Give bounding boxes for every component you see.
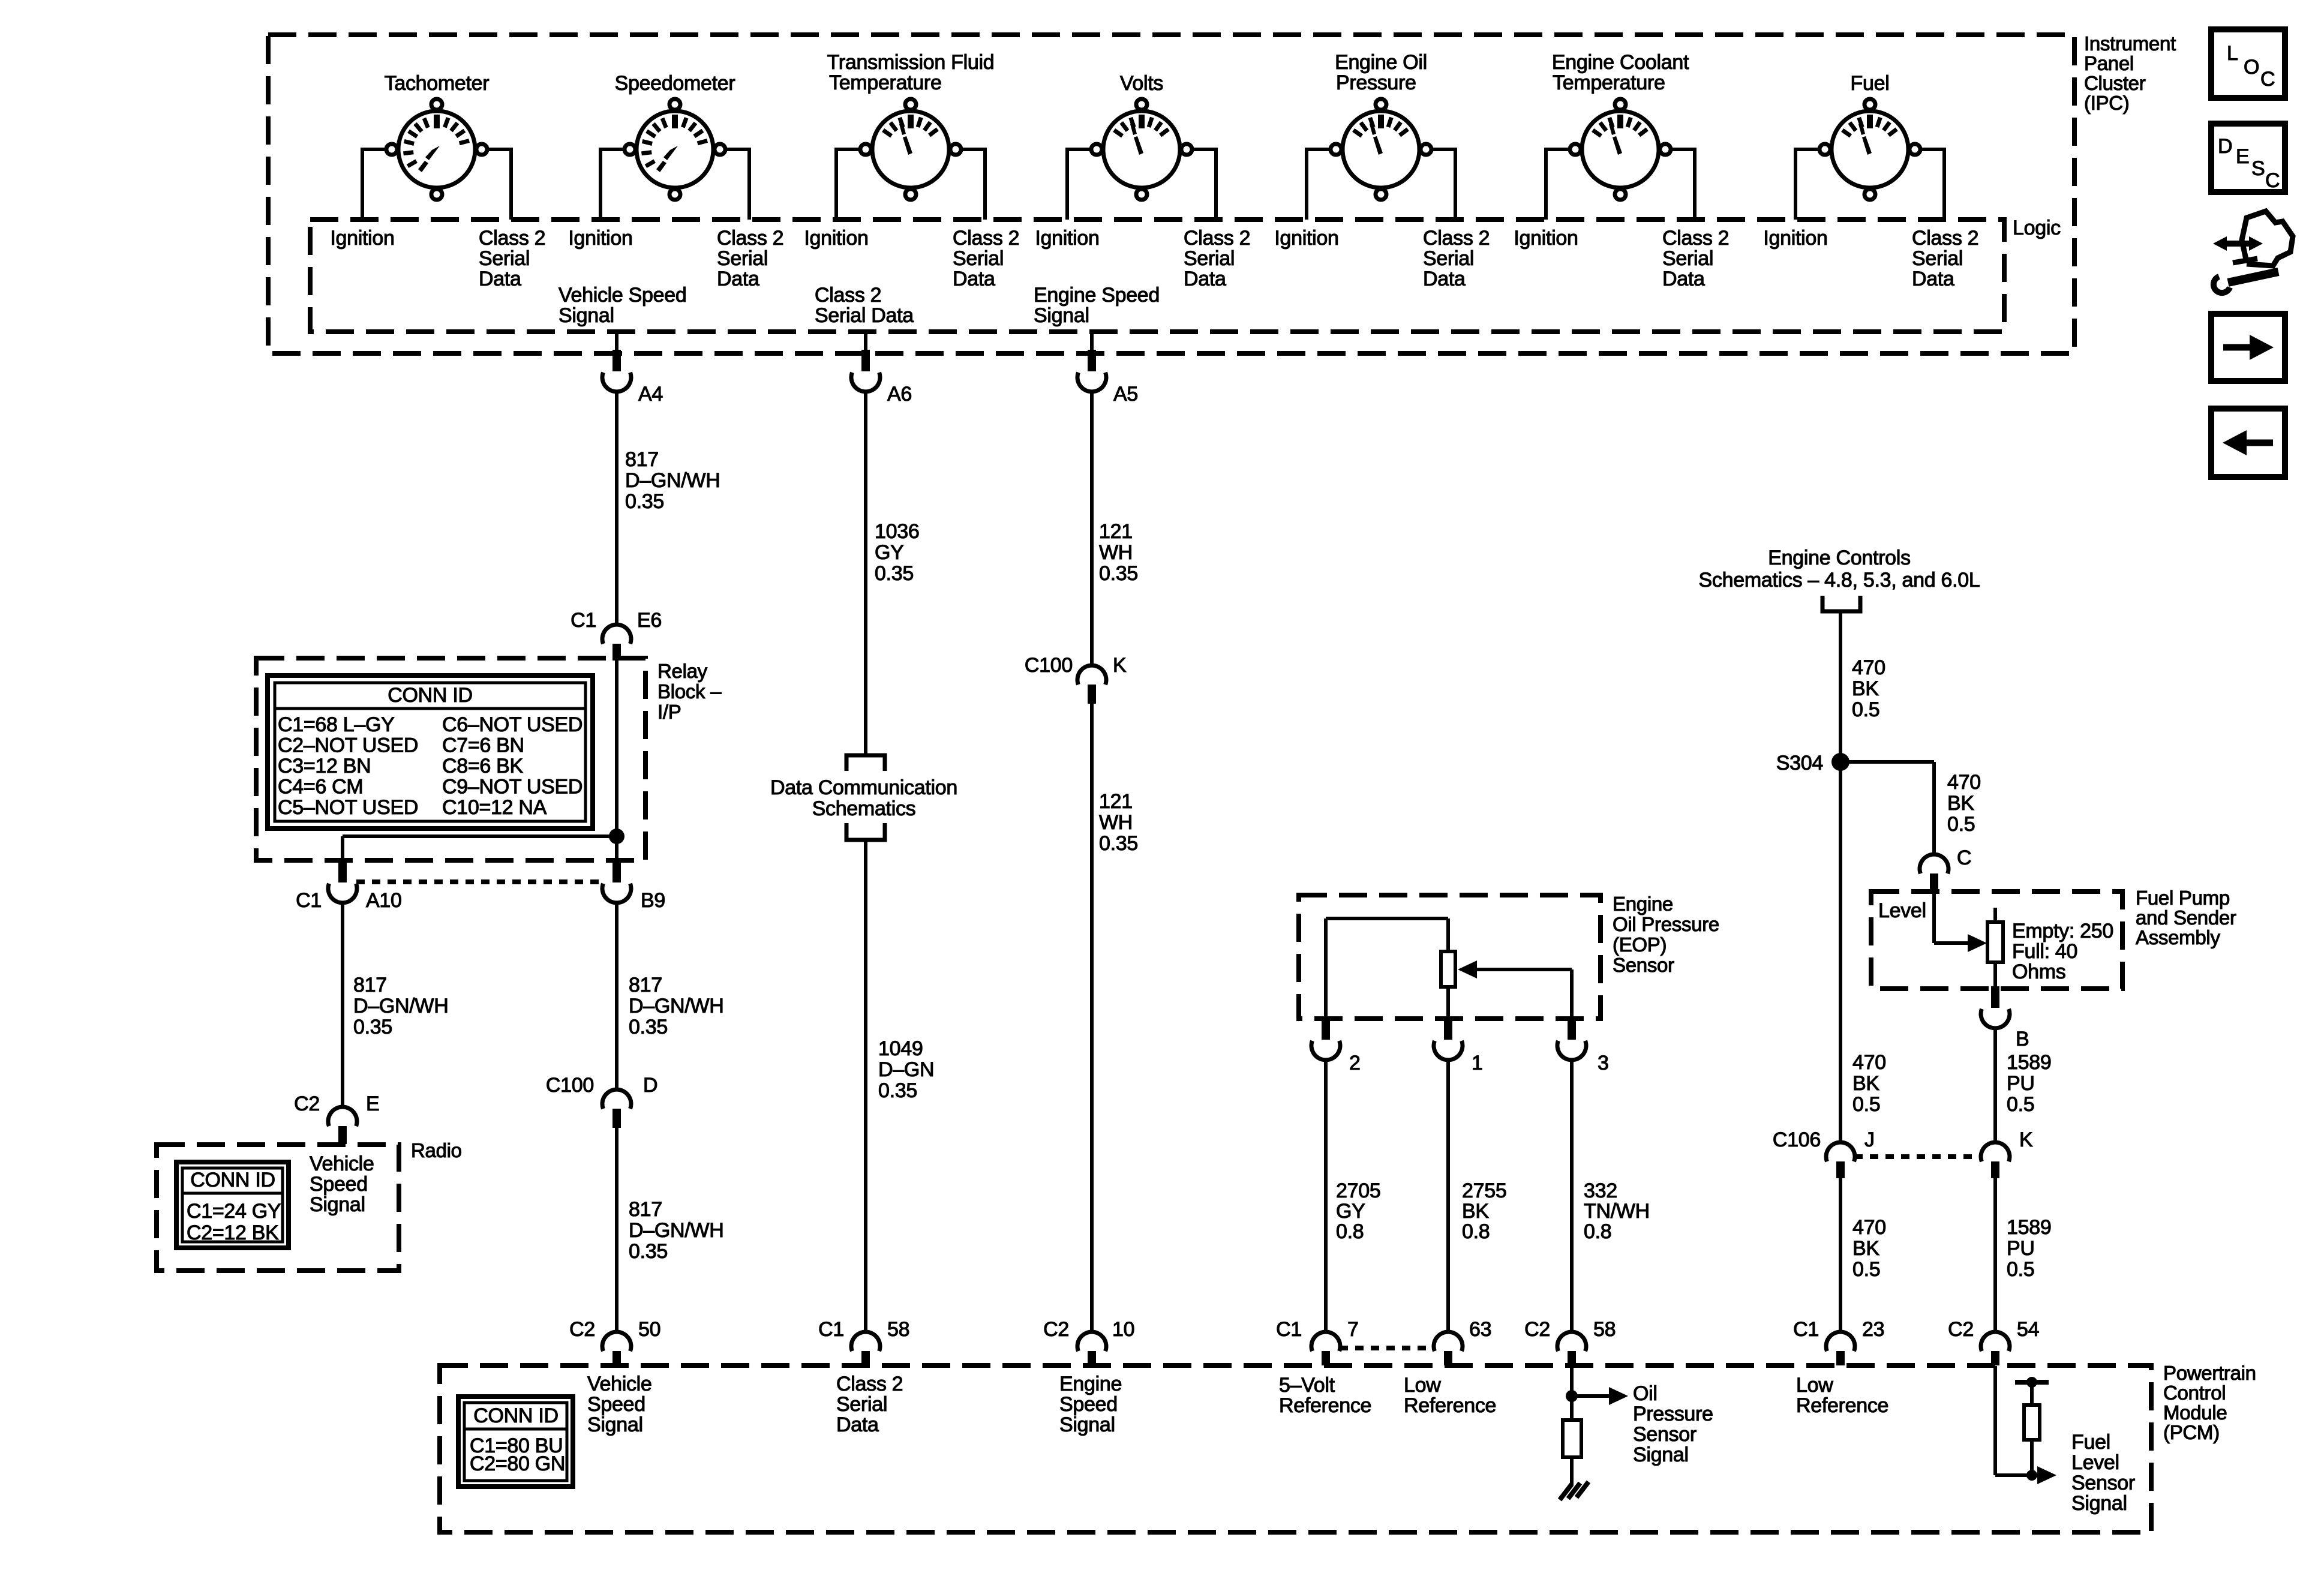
svg-text:CONN ID: CONN ID [388, 684, 472, 707]
svg-text:5–Volt: 5–Volt [1279, 1374, 1335, 1397]
svg-text:Vehicle Speed: Vehicle Speed [559, 284, 687, 307]
svg-text:Speed: Speed [587, 1393, 645, 1416]
svg-text:0.5: 0.5 [1852, 1258, 1880, 1281]
svg-text:A5: A5 [1113, 383, 1138, 406]
svg-text:Data: Data [1912, 268, 1954, 290]
svg-text:0.35: 0.35 [1099, 562, 1138, 585]
svg-text:Level: Level [2071, 1451, 2119, 1474]
svg-text:817: 817 [353, 974, 387, 996]
svg-text:817: 817 [629, 974, 662, 996]
svg-text:C1=68 L–GY: C1=68 L–GY [278, 713, 395, 736]
svg-text:Fuel: Fuel [2071, 1431, 2110, 1454]
svg-text:Cluster: Cluster [2084, 72, 2146, 94]
svg-text:58: 58 [1593, 1318, 1616, 1341]
svg-text:C2–NOT USED: C2–NOT USED [278, 734, 418, 757]
svg-text:BK: BK [1462, 1200, 1489, 1223]
svg-text:E6: E6 [637, 609, 662, 632]
svg-text:0.35: 0.35 [875, 562, 914, 585]
svg-text:Signal: Signal [310, 1193, 365, 1216]
svg-text:Engine: Engine [1613, 893, 1673, 915]
svg-text:Ignition: Ignition [1763, 227, 1827, 250]
svg-text:0.8: 0.8 [1584, 1220, 1611, 1243]
svg-text:TN/WH: TN/WH [1584, 1200, 1650, 1223]
svg-text:C1: C1 [571, 609, 596, 632]
svg-text:Engine: Engine [1059, 1373, 1122, 1395]
svg-text:Serial: Serial [1184, 247, 1235, 270]
svg-text:Reference: Reference [1404, 1394, 1496, 1417]
svg-text:2: 2 [1349, 1052, 1361, 1074]
svg-text:470: 470 [1852, 1051, 1886, 1074]
svg-text:Schematics: Schematics [812, 797, 916, 820]
svg-text:(IPC): (IPC) [2084, 92, 2130, 114]
svg-text:121: 121 [1099, 520, 1133, 543]
svg-text:10: 10 [1112, 1318, 1134, 1341]
svg-text:Engine Oil: Engine Oil [1335, 51, 1427, 74]
svg-text:CONN ID: CONN ID [473, 1404, 558, 1427]
svg-text:Serial: Serial [1662, 247, 1713, 270]
svg-text:A6: A6 [887, 383, 912, 406]
svg-text:0.35: 0.35 [629, 1016, 668, 1038]
svg-text:C1=24 GY: C1=24 GY [187, 1200, 281, 1223]
svg-text:Ignition: Ignition [1514, 227, 1578, 250]
svg-text:54: 54 [2017, 1318, 2039, 1341]
svg-text:Class 2: Class 2 [717, 227, 783, 250]
svg-text:D–GN: D–GN [878, 1058, 934, 1081]
svg-text:Ohms: Ohms [2012, 960, 2065, 983]
svg-text:C7=6 BN: C7=6 BN [442, 734, 524, 757]
svg-text:A10: A10 [366, 889, 402, 912]
svg-text:C8=6 BK: C8=6 BK [442, 755, 524, 778]
svg-text:Signal: Signal [559, 304, 614, 327]
svg-text:K: K [2019, 1128, 2033, 1151]
svg-text:(EOP): (EOP) [1613, 933, 1667, 956]
svg-text:BK: BK [1852, 1072, 1879, 1095]
svg-text:Ignition: Ignition [330, 227, 394, 250]
svg-text:Sensor: Sensor [1633, 1423, 1697, 1446]
svg-text:470: 470 [1947, 771, 1981, 794]
svg-text:Logic: Logic [2013, 217, 2061, 239]
svg-text:C: C [2260, 68, 2275, 91]
svg-text:0.5: 0.5 [1947, 813, 1975, 836]
svg-text:1589: 1589 [2007, 1051, 2051, 1074]
svg-text:Speed: Speed [310, 1173, 368, 1196]
svg-text:D–GN/WH: D–GN/WH [353, 995, 448, 1017]
svg-text:C2: C2 [1043, 1318, 1069, 1341]
svg-text:CONN ID: CONN ID [190, 1169, 275, 1191]
svg-text:Class 2: Class 2 [1184, 227, 1250, 250]
svg-text:Vehicle: Vehicle [310, 1152, 374, 1175]
svg-text:1049: 1049 [878, 1037, 923, 1060]
svg-text:WH: WH [1099, 541, 1133, 564]
svg-text:GY: GY [1336, 1200, 1365, 1223]
svg-text:Signal: Signal [1633, 1443, 1689, 1466]
svg-text:BK: BK [1947, 792, 1974, 815]
svg-text:Vehicle: Vehicle [587, 1373, 652, 1395]
svg-text:Speedometer: Speedometer [615, 72, 735, 95]
svg-text:C2: C2 [294, 1092, 320, 1115]
svg-text:0.35: 0.35 [1099, 832, 1138, 855]
svg-text:GY: GY [875, 541, 904, 564]
svg-text:S: S [2251, 157, 2265, 180]
svg-text:Engine Coolant: Engine Coolant [1552, 51, 1689, 74]
svg-text:C2=80 GN: C2=80 GN [470, 1452, 565, 1475]
svg-text:Panel: Panel [2084, 52, 2134, 74]
svg-text:Low: Low [1404, 1374, 1441, 1397]
svg-text:C100: C100 [546, 1074, 594, 1097]
svg-text:Relay: Relay [657, 660, 708, 682]
svg-text:0.8: 0.8 [1462, 1220, 1490, 1243]
svg-text:Pressure: Pressure [1633, 1403, 1713, 1425]
svg-text:Serial: Serial [1912, 247, 1963, 270]
svg-text:B: B [2016, 1028, 2029, 1050]
svg-text:Data: Data [479, 268, 521, 290]
svg-text:Instrument: Instrument [2084, 32, 2176, 55]
svg-text:C: C [1957, 846, 1971, 869]
svg-text:Radio: Radio [411, 1139, 462, 1161]
svg-text:1: 1 [1472, 1052, 1483, 1074]
svg-text:Serial: Serial [836, 1393, 887, 1416]
svg-text:Class 2: Class 2 [836, 1373, 903, 1395]
svg-text:Volts: Volts [1120, 72, 1163, 95]
svg-text:Class 2: Class 2 [953, 227, 1019, 250]
svg-text:Class 2: Class 2 [1662, 227, 1729, 250]
svg-text:D: D [2218, 135, 2232, 158]
svg-text:K: K [1113, 654, 1127, 677]
svg-text:B9: B9 [641, 889, 665, 912]
svg-text:Signal: Signal [1059, 1413, 1115, 1436]
svg-text:Signal: Signal [2071, 1492, 2127, 1515]
svg-text:Reference: Reference [1796, 1394, 1888, 1417]
svg-text:Signal: Signal [1034, 304, 1089, 327]
svg-text:O: O [2244, 56, 2259, 79]
svg-text:Oil Pressure: Oil Pressure [1613, 913, 1719, 935]
svg-text:1036: 1036 [875, 520, 919, 543]
svg-text:817: 817 [625, 448, 659, 471]
svg-text:23: 23 [1862, 1318, 1884, 1341]
svg-text:0.35: 0.35 [353, 1016, 392, 1038]
svg-text:D–GN/WH: D–GN/WH [625, 469, 720, 492]
svg-text:Fuel: Fuel [1851, 72, 1890, 95]
svg-text:E: E [366, 1092, 379, 1115]
svg-text:Assembly: Assembly [2136, 926, 2220, 948]
svg-text:Class 2: Class 2 [479, 227, 545, 250]
svg-text:58: 58 [887, 1318, 909, 1341]
svg-text:121: 121 [1099, 790, 1133, 813]
svg-text:L: L [2227, 42, 2238, 65]
svg-text:Class 2: Class 2 [1423, 227, 1490, 250]
svg-text:Data: Data [1423, 268, 1466, 290]
svg-text:Ignition: Ignition [568, 227, 632, 250]
svg-text:0.8: 0.8 [1336, 1220, 1364, 1243]
svg-text:Control: Control [2163, 1382, 2226, 1404]
svg-text:Engine Speed: Engine Speed [1034, 284, 1160, 307]
svg-text:D: D [643, 1074, 657, 1097]
svg-text:63: 63 [1469, 1318, 1491, 1341]
svg-text:E: E [2236, 145, 2249, 168]
svg-text:C6–NOT USED: C6–NOT USED [442, 713, 582, 736]
svg-text:C1: C1 [1793, 1318, 1819, 1341]
svg-text:Data: Data [836, 1413, 879, 1436]
svg-text:Tachometer: Tachometer [385, 72, 490, 95]
svg-text:C3=12 BN: C3=12 BN [278, 755, 371, 778]
svg-text:Speed: Speed [1059, 1393, 1118, 1416]
svg-text:Schematics – 4.8, 5.3, and 6.0: Schematics – 4.8, 5.3, and 6.0L [1699, 569, 1980, 592]
svg-text:470: 470 [1852, 656, 1885, 679]
svg-text:0.5: 0.5 [2007, 1093, 2034, 1116]
svg-text:Sensor: Sensor [1613, 954, 1674, 976]
svg-text:332: 332 [1584, 1179, 1617, 1202]
svg-text:Ignition: Ignition [804, 227, 868, 250]
svg-text:Transmission Fluid: Transmission Fluid [827, 51, 995, 74]
svg-text:(PCM): (PCM) [2163, 1421, 2220, 1443]
svg-text:0.5: 0.5 [1852, 1093, 1880, 1116]
svg-text:Module: Module [2163, 1401, 2227, 1424]
svg-text:Ignition: Ignition [1274, 227, 1338, 250]
svg-text:PU: PU [2007, 1072, 2035, 1095]
svg-text:BK: BK [1852, 1237, 1879, 1260]
svg-text:J: J [1864, 1128, 1875, 1151]
svg-text:PU: PU [2007, 1237, 2035, 1260]
svg-text:Serial: Serial [953, 247, 1004, 270]
svg-text:C4=6 CM: C4=6 CM [278, 776, 363, 798]
svg-text:7: 7 [1347, 1318, 1359, 1341]
svg-text:Class 2: Class 2 [815, 284, 881, 307]
svg-text:50: 50 [638, 1318, 660, 1341]
svg-text:Serial Data: Serial Data [815, 304, 914, 327]
svg-text:C2=12 BK: C2=12 BK [187, 1221, 279, 1244]
svg-text:2755: 2755 [1462, 1179, 1506, 1202]
svg-text:Data: Data [717, 268, 759, 290]
svg-text:Low: Low [1796, 1374, 1833, 1397]
svg-text:C1: C1 [1276, 1318, 1302, 1341]
svg-text:Serial: Serial [717, 247, 768, 270]
svg-text:Serial: Serial [1423, 247, 1474, 270]
svg-text:Powertrain: Powertrain [2163, 1362, 2256, 1384]
svg-text:Oil: Oil [1633, 1382, 1658, 1405]
svg-text:Engine Controls: Engine Controls [1768, 547, 1910, 569]
svg-text:Serial: Serial [479, 247, 530, 270]
svg-text:C5–NOT USED: C5–NOT USED [278, 796, 418, 819]
svg-text:817: 817 [629, 1198, 662, 1221]
svg-text:A4: A4 [638, 383, 663, 406]
svg-text:D–GN/WH: D–GN/WH [629, 1219, 723, 1242]
svg-text:Fuel Pump: Fuel Pump [2136, 887, 2230, 909]
svg-text:Full: 40: Full: 40 [2012, 940, 2077, 963]
svg-text:Level: Level [1878, 899, 1926, 922]
svg-text:Ignition: Ignition [1035, 227, 1099, 250]
svg-text:C106: C106 [1773, 1128, 1821, 1151]
svg-text:C10=12 NA: C10=12 NA [442, 796, 547, 819]
svg-text:C2: C2 [569, 1318, 595, 1341]
svg-text:Sensor: Sensor [2071, 1472, 2135, 1494]
svg-text:Data: Data [953, 268, 995, 290]
svg-text:C100: C100 [1025, 654, 1073, 677]
svg-text:0.35: 0.35 [625, 490, 664, 513]
svg-text:I/P: I/P [657, 701, 681, 723]
svg-text:Class 2: Class 2 [1912, 227, 1978, 250]
svg-text:Data: Data [1184, 268, 1226, 290]
svg-text:0.35: 0.35 [629, 1240, 668, 1263]
svg-text:Reference: Reference [1279, 1394, 1371, 1417]
svg-text:Signal: Signal [587, 1413, 643, 1436]
svg-text:1589: 1589 [2007, 1216, 2051, 1239]
svg-text:C1: C1 [296, 889, 322, 912]
svg-text:3: 3 [1598, 1052, 1609, 1074]
svg-text:Temperature: Temperature [1553, 71, 1665, 94]
svg-text:Block –: Block – [657, 680, 722, 703]
svg-text:C: C [2265, 169, 2280, 192]
svg-text:Pressure: Pressure [1336, 71, 1416, 94]
svg-text:WH: WH [1099, 811, 1133, 834]
svg-text:C2: C2 [1948, 1318, 1974, 1341]
svg-text:Data Communication: Data Communication [770, 776, 957, 799]
svg-text:0.5: 0.5 [1852, 698, 1879, 721]
svg-text:Temperature: Temperature [829, 71, 942, 94]
svg-text:C9–NOT USED: C9–NOT USED [442, 776, 582, 798]
svg-text:0.5: 0.5 [2007, 1258, 2034, 1281]
svg-text:470: 470 [1852, 1216, 1886, 1239]
svg-text:0.35: 0.35 [878, 1079, 917, 1102]
svg-text:D–GN/WH: D–GN/WH [629, 995, 723, 1017]
svg-text:C1: C1 [818, 1318, 844, 1341]
svg-text:BK: BK [1852, 677, 1879, 700]
svg-text:C2: C2 [1524, 1318, 1550, 1341]
svg-text:S304: S304 [1776, 752, 1823, 775]
svg-text:Data: Data [1662, 268, 1705, 290]
svg-text:Empty: 250: Empty: 250 [2012, 920, 2113, 942]
svg-text:2705: 2705 [1336, 1179, 1380, 1202]
svg-text:and Sender: and Sender [2136, 906, 2236, 929]
